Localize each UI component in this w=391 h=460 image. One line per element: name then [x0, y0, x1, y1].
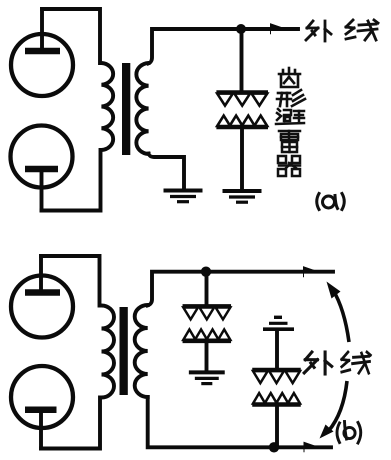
wire left arrester lead (b)	[205, 272, 209, 305]
label 雷	[279, 131, 300, 152]
wire secondary bottom lead (b)	[148, 397, 331, 447]
arrow on bottom line (b)	[304, 442, 319, 452]
label 避	[276, 109, 304, 124]
wire bottom of primary loop (a)	[42, 150, 101, 211]
label 形	[277, 90, 305, 106]
wire top of primary loop (b)	[41, 256, 100, 306]
arrester E1 teeth (a)	[216, 92, 268, 128]
label 外线 (a)	[306, 21, 331, 41]
arrow to line (a)	[271, 24, 286, 34]
wire secondary top lead (b)	[148, 272, 333, 306]
ground left arrester (b)	[189, 372, 225, 383]
wire bottom of primary loop (b)	[41, 398, 100, 449]
wire arrester to ground (a)	[240, 129, 244, 191]
ground arrester (a)	[223, 191, 262, 202]
transformer T1 core	[122, 63, 130, 155]
transformer T2 core	[120, 307, 128, 395]
arc to outgoing line lower (b)	[329, 381, 348, 431]
label (b)	[337, 422, 361, 444]
wire right arrester upper lead (b)	[275, 331, 279, 369]
node junction dot bottom (b)	[269, 442, 279, 452]
tube V1	[11, 9, 73, 96]
ground inverted right arrester (b)	[263, 317, 294, 329]
wire arrester lead (a)	[240, 29, 244, 91]
arc to outgoing line upper (b)	[333, 290, 349, 342]
label 外线 (b)	[304, 352, 332, 374]
arrester E3 teeth (b right)	[252, 370, 301, 406]
label 齿	[279, 68, 300, 87]
wire secondary bottom lead (a)	[149, 154, 185, 191]
wire secondary top lead (a)	[149, 29, 299, 64]
transformer T1 primary winding	[102, 63, 114, 150]
wire right arrester lower lead (b)	[275, 406, 279, 448]
transformer T2 primary winding	[102, 306, 115, 398]
ground secondary (a)	[164, 191, 203, 202]
tube V2	[11, 126, 73, 211]
wire top of primary loop (a)	[42, 9, 100, 63]
tube V4	[11, 366, 73, 449]
transformer T1 secondary winding	[136, 63, 148, 154]
transformer T2 secondary winding	[135, 305, 148, 397]
arrester E2 teeth (b left)	[183, 306, 232, 342]
tube V3	[11, 256, 73, 338]
arrow on top line (b)	[304, 267, 319, 277]
label 器	[278, 156, 300, 176]
wire left arrester to ground (b)	[205, 342, 209, 372]
node junction dot top (b)	[201, 267, 211, 277]
label (a)	[317, 194, 345, 210]
node junction dot (a)	[236, 24, 246, 34]
